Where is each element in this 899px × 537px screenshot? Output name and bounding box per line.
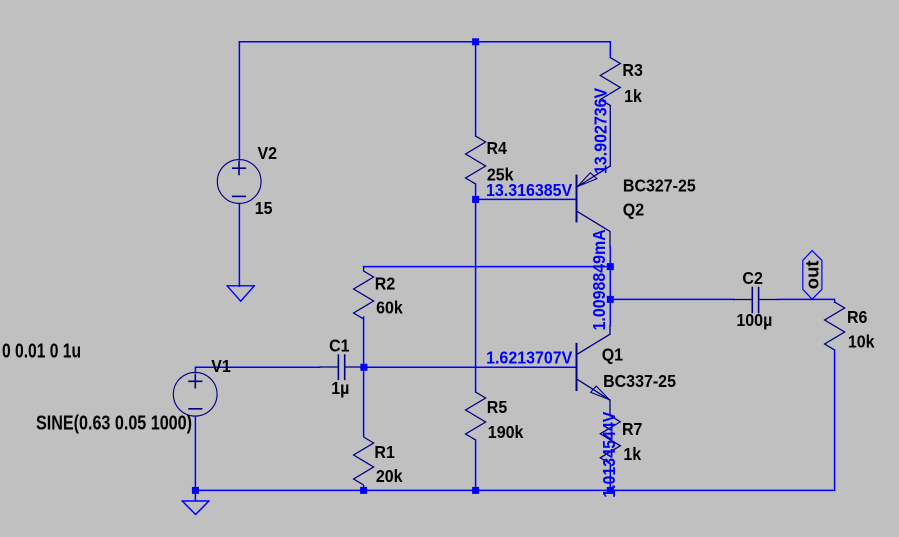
wire R3 top lead bbox=[609, 42, 611, 58]
capacitor C1 bbox=[320, 355, 361, 379]
svg-text:13.316385V: 13.316385V bbox=[486, 181, 573, 201]
ground (below V2) bbox=[227, 286, 254, 301]
svg-text:1k: 1k bbox=[624, 86, 642, 106]
wire R4 top bbox=[475, 42, 477, 136]
wire R2 to R1 bbox=[363, 367, 365, 437]
wire Q1 collector bbox=[609, 299, 611, 326]
svg-text:1µ: 1µ bbox=[331, 378, 349, 398]
wire Q2 collector bbox=[609, 247, 611, 267]
svg-text:R7: R7 bbox=[622, 419, 642, 439]
wire R2 bottom bbox=[363, 317, 365, 367]
svg-text:BC327-25: BC327-25 bbox=[623, 176, 696, 196]
wire mid rail R2 to Q2 collector node bbox=[364, 266, 611, 268]
resistor R3 bbox=[600, 58, 620, 106]
ground (below V1) bbox=[182, 494, 209, 515]
transistor Q2 bbox=[577, 166, 611, 247]
wire V1 top bbox=[195, 367, 319, 373]
node junction V1 ground bbox=[192, 487, 199, 494]
node junction collector Q2 bbox=[607, 263, 614, 270]
svg-text:R5: R5 bbox=[487, 397, 507, 417]
resistor R5 bbox=[466, 392, 486, 440]
svg-text:1.6213707V: 1.6213707V bbox=[486, 348, 573, 368]
svg-text:out: out bbox=[802, 260, 823, 289]
wire C2 node to C2 bbox=[610, 298, 734, 300]
wire C2 to R6 bbox=[778, 299, 835, 302]
svg-text:SINE(0.63 0.05 1000): SINE(0.63 0.05 1000) bbox=[36, 412, 192, 434]
svg-text:Q1: Q1 bbox=[602, 345, 623, 365]
svg-text:15: 15 bbox=[255, 199, 273, 219]
resistor R6 bbox=[825, 302, 845, 350]
svg-text:1.0098849mA: 1.0098849mA bbox=[589, 229, 609, 330]
wire Q1 emitter to R7 bbox=[609, 400, 611, 416]
svg-text:R3: R3 bbox=[622, 60, 642, 80]
node junction top bbox=[472, 38, 479, 45]
svg-text:60k: 60k bbox=[376, 298, 403, 318]
port flag out bbox=[803, 251, 822, 300]
svg-text:0 0.01 0 1u: 0 0.01 0 1u bbox=[2, 339, 81, 361]
svg-text:1k: 1k bbox=[623, 444, 641, 464]
node junction out bbox=[607, 296, 614, 303]
wire C1 to junction bbox=[361, 366, 365, 368]
svg-text:1.0134544V: 1.0134544V bbox=[599, 411, 619, 498]
wire top rail bbox=[239, 41, 610, 43]
svg-text:C1: C1 bbox=[329, 336, 349, 356]
svg-text:100µ: 100µ bbox=[736, 310, 772, 330]
svg-text:13.902736V: 13.902736V bbox=[591, 87, 611, 174]
svg-text:10k: 10k bbox=[848, 332, 875, 352]
voltage source V1 bbox=[173, 372, 217, 416]
node junction R5 bottom bbox=[472, 487, 479, 494]
wire R7 bottom bbox=[609, 464, 611, 491]
node junction R4/Q2 base bbox=[472, 196, 479, 203]
svg-text:Q2: Q2 bbox=[623, 200, 644, 220]
wire R6 bottom bbox=[610, 351, 834, 491]
node junction C1 bbox=[360, 364, 367, 371]
svg-text:190k: 190k bbox=[488, 422, 524, 442]
wire R4 to R5 bbox=[475, 199, 477, 392]
svg-text:V2: V2 bbox=[258, 143, 278, 163]
resistor R1 bbox=[354, 437, 374, 485]
resistor R4 bbox=[466, 136, 486, 184]
wire R1 bottom bbox=[363, 485, 365, 490]
svg-text:R6: R6 bbox=[847, 307, 867, 327]
svg-text:BC337-25: BC337-25 bbox=[603, 371, 676, 391]
wire R4 bottom bbox=[475, 184, 477, 199]
wire collector node to C2 node bbox=[609, 267, 611, 300]
svg-text:R2: R2 bbox=[375, 274, 395, 294]
wire Q2 base bbox=[476, 198, 576, 200]
wire Q1 base bbox=[364, 366, 576, 368]
transistor Q1 bbox=[577, 326, 611, 400]
svg-text:V1: V1 bbox=[211, 356, 231, 376]
svg-text:R4: R4 bbox=[487, 139, 508, 159]
capacitor C2 bbox=[734, 288, 778, 313]
wire V2 bottom bbox=[238, 204, 240, 287]
node junction R7 bottom bbox=[607, 487, 614, 494]
svg-text:R1: R1 bbox=[374, 442, 394, 462]
svg-text:20k: 20k bbox=[376, 466, 403, 486]
svg-text:C2: C2 bbox=[742, 268, 762, 288]
wire V1 bottom bbox=[194, 416, 196, 490]
node junction R1 bottom bbox=[360, 487, 367, 494]
resistor R7 bbox=[600, 416, 620, 464]
voltage source V2 bbox=[217, 160, 261, 204]
resistor R2 bbox=[354, 267, 374, 319]
wire bottom rail bbox=[195, 489, 610, 491]
wire R3 to Q2 emitter bbox=[609, 106, 611, 167]
wire R5 bottom bbox=[475, 440, 477, 490]
wire V2 top bbox=[238, 42, 240, 160]
